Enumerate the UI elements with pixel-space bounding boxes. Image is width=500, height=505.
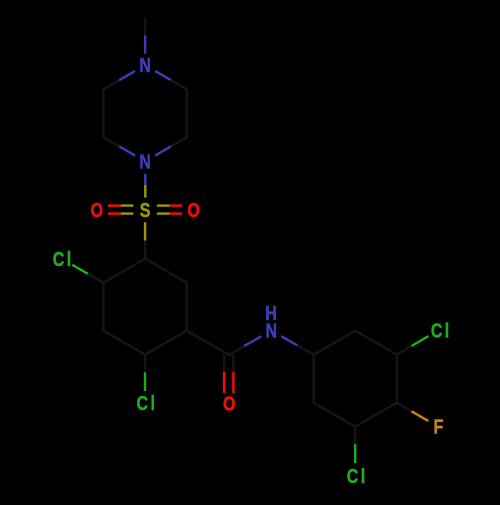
bond Cl-B5 (Cl half) [354,444,356,463]
bond F-B4 (F half) [412,411,429,421]
double bond S=O right, line 2 [157,212,170,214]
svg-text:S: S [140,199,151,221]
svg-text:N: N [139,151,151,173]
bond N4-C5 (N half) [119,146,135,155]
bond Cl-A4 (Cl half) [144,372,146,391]
double bond S=O right, line 1 [157,204,170,206]
wire carbon skeleton (near-invisible) [88,17,412,444]
bond N4-S (S half) [144,185,146,198]
bond N1-C2 (N half) [155,71,171,80]
bond N4-C3 (N half) [155,146,171,155]
bond N1-C6 (N half) [119,71,135,80]
bond S-A1 (S half) [144,222,146,240]
double bond C=O amide, line 1 (O half) [223,372,225,393]
bond Nam-Cam (N half) [244,336,261,346]
double bond S=O left, line 2 [121,212,134,214]
bond CH3-N1 (N half) [144,35,146,53]
svg-text:Cl: Cl [53,248,74,270]
svg-text:O: O [223,393,235,415]
double bond S=O left, line 1 [121,204,134,206]
svg-text:H: H [265,302,277,324]
bond Cl-B3 (Cl half) [411,336,428,346]
bond Cl-A6 (Cl half) [72,265,88,274]
svg-text:F: F [434,416,444,438]
double bond C=O amide, line 2 (O half) [232,372,234,393]
svg-text:N: N [139,55,151,77]
bond N4-S (N half) [144,174,146,185]
svg-text:Cl: Cl [136,392,157,414]
svg-text:O: O [91,199,103,221]
svg-text:O: O [187,199,199,221]
svg-text:Cl: Cl [347,465,368,487]
bond Nam-B1 (N half) [281,336,297,345]
svg-text:Cl: Cl [431,320,452,342]
